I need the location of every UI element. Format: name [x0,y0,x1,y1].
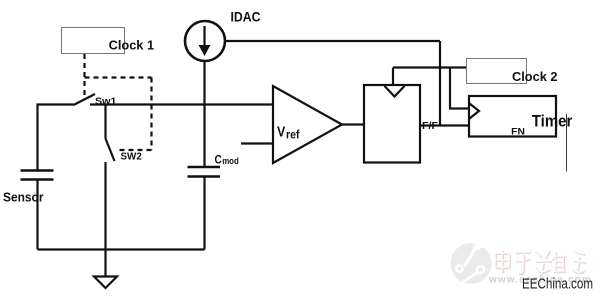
svg-text:mod: mod [222,156,239,167]
svg-text:SW2: SW2 [121,152,143,163]
svg-text:Clock 2: Clock 2 [512,69,558,84]
svg-text:Clock 1: Clock 1 [109,37,155,52]
svg-text:F/F: F/F [422,120,439,132]
svg-text:Timer: Timer [532,113,573,131]
svg-text:ref: ref [286,130,300,142]
svg-text:Sw1: Sw1 [95,95,117,107]
svg-text:C: C [215,152,222,166]
svg-text:IDAC: IDAC [231,9,261,25]
svg-text:Sensor: Sensor [3,190,44,205]
svg-text:V: V [277,125,286,141]
svg-text:FN: FN [511,126,525,137]
svg-text:EEChina.com: EEChina.com [522,276,593,292]
